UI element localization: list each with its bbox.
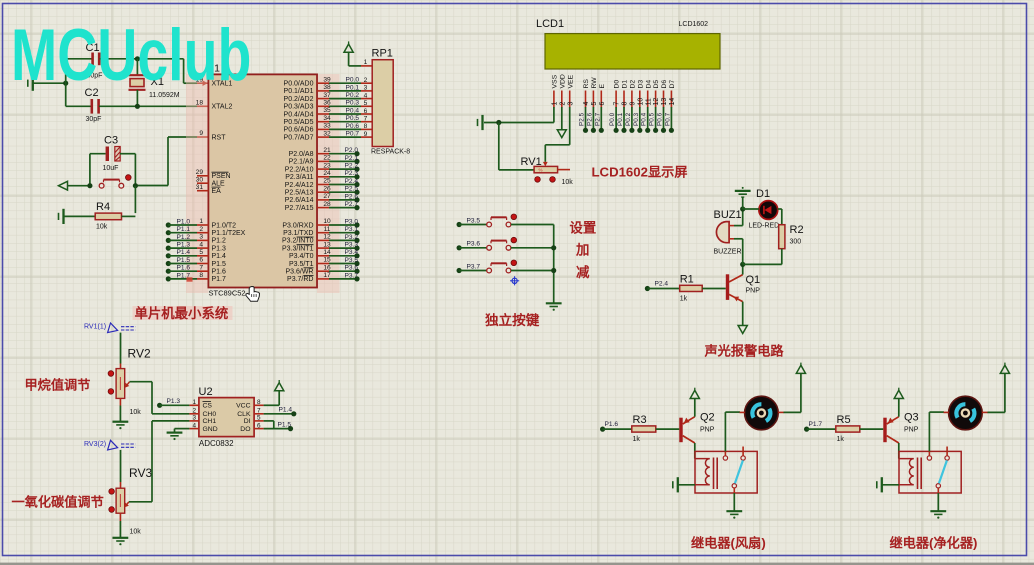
svg-text:RS: RS bbox=[583, 79, 590, 89]
wire bbox=[733, 493, 735, 511]
pin P0.5 bbox=[317, 121, 329, 123]
power terminal motor Q2 bbox=[796, 365, 805, 373]
node junction left bus bbox=[63, 81, 68, 86]
overline INT bbox=[297, 236, 314, 238]
svg-text:P1.0/T2: P1.0/T2 bbox=[212, 222, 237, 229]
wire to ground bbox=[742, 197, 744, 209]
junction bbox=[551, 245, 556, 250]
svg-text:Q3: Q3 bbox=[904, 412, 919, 424]
svg-text:甲烷值调节: 甲烷值调节 bbox=[25, 377, 91, 393]
pin motor left bbox=[740, 411, 745, 413]
svg-text:VEE: VEE bbox=[567, 74, 574, 88]
svg-text:1: 1 bbox=[199, 218, 203, 225]
svg-text:P1.7: P1.7 bbox=[809, 421, 823, 428]
svg-text:声光报警电路: 声光报警电路 bbox=[704, 343, 785, 359]
power terminal Q3 bbox=[894, 390, 903, 398]
node P2.7 bbox=[354, 205, 359, 210]
red dot RV1 minus bbox=[535, 177, 541, 183]
resistor R5 bbox=[836, 426, 860, 432]
wire P0.7 bbox=[670, 107, 672, 130]
svg-text:9: 9 bbox=[364, 131, 368, 138]
overline EA bbox=[212, 186, 221, 188]
wire bbox=[120, 333, 122, 364]
svg-text:3: 3 bbox=[567, 102, 574, 106]
pin LCD RS bbox=[585, 91, 587, 108]
node P2.4 bbox=[354, 182, 359, 187]
svg-text:R5: R5 bbox=[837, 414, 851, 426]
node P3.7 bbox=[354, 276, 359, 281]
svg-text:P2.7/A15: P2.7/A15 bbox=[285, 205, 314, 212]
pin LCD D3 bbox=[639, 91, 641, 108]
svg-text:RESPACK-8: RESPACK-8 bbox=[371, 149, 410, 156]
pin P2.3 bbox=[317, 176, 329, 178]
svg-text:3: 3 bbox=[192, 415, 196, 422]
svg-text:1k: 1k bbox=[837, 436, 845, 443]
svg-text:39: 39 bbox=[323, 76, 331, 83]
pin P3.5 bbox=[317, 263, 329, 265]
pin P2.0 bbox=[317, 153, 329, 155]
svg-text:P1.6: P1.6 bbox=[605, 421, 619, 428]
svg-text:P0.2: P0.2 bbox=[625, 112, 632, 126]
svg-text:13: 13 bbox=[661, 98, 668, 106]
node P1.3 bbox=[166, 246, 171, 251]
node P3.6 bbox=[457, 245, 462, 250]
svg-text:R1: R1 bbox=[680, 274, 694, 286]
wire bbox=[136, 59, 138, 75]
svg-text:P2.7: P2.7 bbox=[345, 201, 359, 208]
svg-text:E: E bbox=[599, 84, 606, 89]
node P0.0 bbox=[614, 128, 619, 133]
svg-text:RV2: RV2 bbox=[128, 347, 151, 361]
pin LCD D2 bbox=[631, 91, 633, 108]
svg-text:P0.5: P0.5 bbox=[649, 112, 656, 126]
wire bbox=[499, 169, 534, 171]
svg-text:P0.0/AD0: P0.0/AD0 bbox=[284, 81, 314, 88]
svg-text:C3: C3 bbox=[104, 135, 118, 147]
svg-text:11: 11 bbox=[645, 98, 652, 105]
wire bbox=[66, 105, 91, 107]
svg-text:36: 36 bbox=[323, 100, 331, 107]
svg-text:R2: R2 bbox=[790, 224, 804, 236]
wire bbox=[484, 122, 554, 124]
svg-text:D6: D6 bbox=[661, 80, 668, 89]
wire P3.3 bbox=[329, 247, 357, 249]
pin P1.5 bbox=[197, 263, 208, 265]
pin buzzer bottom bbox=[729, 238, 734, 240]
junction bbox=[496, 120, 501, 125]
pin LCD VEE bbox=[569, 91, 571, 108]
node P3.7 bbox=[457, 268, 462, 273]
svg-text:P1.0: P1.0 bbox=[177, 218, 191, 225]
power terminal Q2 bbox=[690, 390, 699, 398]
svg-text:P2.6: P2.6 bbox=[586, 112, 593, 126]
red highlight fragment bbox=[187, 277, 193, 281]
svg-text:P1.2: P1.2 bbox=[212, 238, 227, 245]
svg-text:VDD: VDD bbox=[559, 74, 566, 88]
pin P0.0 bbox=[317, 82, 329, 84]
svg-text:P3.4: P3.4 bbox=[345, 249, 359, 256]
svg-text:1k: 1k bbox=[680, 296, 688, 303]
svg-text:27: 27 bbox=[323, 193, 331, 200]
wire GND bbox=[175, 428, 190, 430]
pin relay NC Q2 bbox=[742, 447, 744, 456]
svg-text:30: 30 bbox=[196, 176, 204, 183]
wire P3.6 bbox=[329, 270, 357, 272]
node P3.5 bbox=[354, 261, 359, 266]
svg-text:11: 11 bbox=[324, 226, 331, 233]
svg-text:ALE: ALE bbox=[212, 181, 226, 188]
wire P3.5 to bus bbox=[511, 224, 554, 226]
red actuator dot P3.5 bbox=[511, 214, 517, 220]
wire bbox=[734, 225, 743, 227]
svg-text:P2.2/A10: P2.2/A10 bbox=[285, 166, 314, 173]
svg-text:2: 2 bbox=[192, 408, 196, 415]
ground relay Q3 bbox=[930, 511, 946, 519]
svg-text:6: 6 bbox=[199, 257, 203, 264]
wire VCC bbox=[264, 404, 280, 406]
wire P3.7 bbox=[329, 278, 357, 280]
svg-text:P0.1: P0.1 bbox=[617, 112, 624, 126]
svg-text:VSS: VSS bbox=[552, 74, 559, 88]
svg-text:30pF: 30pF bbox=[86, 116, 102, 123]
svg-text:P1.1: P1.1 bbox=[177, 226, 191, 233]
svg-text:DI: DI bbox=[244, 418, 251, 425]
node P1.6 bbox=[166, 269, 171, 274]
node P3.4 bbox=[354, 253, 359, 258]
svg-text:P0.4: P0.4 bbox=[346, 107, 360, 114]
svg-text:23: 23 bbox=[323, 162, 331, 169]
relay contacts Q3 bbox=[927, 456, 949, 488]
wire bbox=[89, 154, 91, 186]
svg-text:U2: U2 bbox=[199, 386, 213, 398]
pin RST bbox=[197, 136, 208, 138]
wire P3.2 bbox=[329, 239, 357, 241]
pin P3.0 bbox=[317, 224, 329, 226]
pin LCD D4 bbox=[647, 91, 649, 108]
wire P2.5 bbox=[329, 191, 357, 193]
pin LCD RW bbox=[592, 91, 594, 108]
ground coil Q3 bbox=[877, 477, 882, 492]
wire P0.4 bbox=[647, 107, 649, 130]
svg-text:PNP: PNP bbox=[746, 288, 761, 295]
wire bbox=[152, 420, 189, 422]
pin P2.4 bbox=[317, 184, 329, 186]
svg-text:P2.2: P2.2 bbox=[345, 163, 359, 170]
svg-text:RW: RW bbox=[591, 77, 598, 89]
wire bbox=[120, 450, 122, 482]
relay switch arm Q2 bbox=[735, 460, 743, 483]
svg-text:D4: D4 bbox=[645, 80, 652, 89]
svg-text:P0.3: P0.3 bbox=[633, 112, 640, 126]
svg-text:P1.3: P1.3 bbox=[177, 242, 191, 249]
svg-text:P1.4: P1.4 bbox=[177, 249, 191, 256]
wire P2.7 bbox=[329, 207, 357, 209]
wire P2.1 bbox=[329, 160, 357, 162]
RV2 wiper bbox=[125, 382, 130, 388]
svg-text:P3.5: P3.5 bbox=[345, 257, 359, 264]
svg-text:P0.5: P0.5 bbox=[346, 115, 360, 122]
pin P0.7 bbox=[317, 136, 329, 138]
wire emitter Q1 bbox=[742, 302, 744, 326]
node P3.1 bbox=[354, 230, 359, 235]
junction LED node bbox=[740, 206, 745, 211]
wire P2.2 bbox=[329, 168, 357, 170]
svg-text:8: 8 bbox=[622, 102, 629, 106]
wire P1.1 bbox=[168, 232, 197, 234]
pin motor left bbox=[944, 411, 949, 413]
ground near C1/C2 bbox=[28, 76, 33, 91]
wire P1.0 bbox=[168, 224, 197, 226]
svg-text:10: 10 bbox=[323, 218, 331, 225]
svg-text:%: % bbox=[539, 168, 543, 173]
svg-text:D1: D1 bbox=[622, 80, 629, 89]
wire P2.6 bbox=[329, 199, 357, 201]
selection highlight bands bbox=[186, 74, 340, 293]
wire bbox=[68, 185, 88, 187]
LED D1 LED-RED bbox=[759, 201, 778, 220]
wire bbox=[122, 215, 136, 217]
ground U2 bbox=[167, 433, 183, 441]
svg-text:8: 8 bbox=[364, 123, 368, 130]
svg-text:RST: RST bbox=[212, 134, 227, 141]
wire bbox=[130, 381, 152, 383]
svg-text:PNP: PNP bbox=[904, 427, 919, 434]
wire P3.7 to bus bbox=[511, 270, 554, 272]
svg-text:Q1: Q1 bbox=[746, 274, 761, 286]
terminal flag RV2 top bbox=[108, 323, 136, 333]
RV3 wiper bbox=[124, 502, 128, 508]
wire P0.6 bbox=[329, 128, 361, 130]
pin RV3 top bbox=[120, 482, 122, 488]
wire P2.0 bbox=[329, 153, 357, 155]
wire left bus bbox=[65, 59, 67, 107]
wire bbox=[882, 484, 899, 486]
svg-text:D0: D0 bbox=[614, 80, 621, 89]
svg-text:P0.2: P0.2 bbox=[346, 92, 360, 99]
wire bbox=[174, 429, 176, 433]
node P0.2 bbox=[629, 128, 634, 133]
node P2.7 bbox=[599, 128, 604, 133]
svg-text:1: 1 bbox=[192, 399, 196, 406]
pin XTAL1 bbox=[197, 82, 208, 84]
potentiometer RV2 bbox=[116, 369, 125, 399]
svg-text:减: 减 bbox=[576, 264, 590, 280]
node P3.3 bbox=[354, 246, 359, 251]
svg-text:7: 7 bbox=[199, 264, 203, 271]
svg-text:4: 4 bbox=[192, 422, 196, 429]
junction crystal bottom bbox=[135, 104, 140, 109]
svg-text:P1.4: P1.4 bbox=[212, 253, 227, 260]
wire bbox=[120, 153, 135, 155]
node P1.0 bbox=[166, 222, 171, 227]
pin LCD VDD bbox=[561, 91, 563, 108]
svg-text:P0.3/AD3: P0.3/AD3 bbox=[284, 104, 314, 111]
node P3.0 bbox=[354, 222, 359, 227]
pin P0.6 bbox=[317, 128, 329, 130]
svg-text:P2.3/A11: P2.3/A11 bbox=[285, 174, 313, 181]
red actuator dot bbox=[126, 175, 132, 181]
wire bbox=[742, 209, 744, 226]
wire bbox=[800, 373, 802, 412]
relay switch arm Q3 bbox=[939, 460, 947, 483]
wire bbox=[135, 185, 168, 187]
svg-text:35: 35 bbox=[323, 107, 331, 114]
svg-text:MCUclub: MCUclub bbox=[11, 14, 251, 96]
svg-text:P0.7/AD7: P0.7/AD7 bbox=[284, 134, 314, 141]
pin P0.4 bbox=[317, 113, 329, 115]
node P0.6 bbox=[661, 128, 666, 133]
pin P3.7 bbox=[317, 278, 329, 280]
wire bbox=[134, 186, 136, 213]
svg-text:10k: 10k bbox=[130, 529, 142, 536]
svg-text:D7: D7 bbox=[669, 80, 676, 89]
wire P0.2 bbox=[631, 107, 633, 130]
capacitor C3 bbox=[106, 147, 121, 162]
svg-text:10: 10 bbox=[637, 98, 644, 106]
svg-text:ADC0832: ADC0832 bbox=[199, 439, 234, 448]
svg-text:BUZZER: BUZZER bbox=[714, 249, 742, 256]
overline PSEN bbox=[212, 171, 229, 173]
svg-text:PSEN: PSEN bbox=[212, 173, 231, 180]
svg-text:2: 2 bbox=[559, 102, 566, 106]
node P1.4 bbox=[166, 253, 171, 258]
svg-text:9: 9 bbox=[630, 102, 637, 106]
node P2.1 bbox=[354, 159, 359, 164]
ground RV3 bbox=[113, 538, 129, 546]
svg-text:VCC: VCC bbox=[236, 403, 250, 410]
pin RV3 bottom bbox=[119, 513, 121, 521]
potentiometer RV3 bbox=[116, 488, 125, 513]
overline bbox=[304, 267, 314, 269]
pin P3.3 bbox=[317, 247, 329, 249]
svg-text:设置: 设置 bbox=[570, 221, 597, 236]
svg-text:5: 5 bbox=[364, 100, 368, 107]
pin relay common Q3 bbox=[937, 488, 939, 493]
node P3.6 bbox=[354, 269, 359, 274]
svg-text:独立按键: 独立按键 bbox=[485, 312, 540, 328]
wire P3.6 to bus bbox=[511, 247, 554, 249]
svg-text:14: 14 bbox=[669, 98, 676, 106]
svg-text:8: 8 bbox=[199, 272, 203, 279]
svg-text:P1.3: P1.3 bbox=[212, 245, 227, 252]
svg-text:7: 7 bbox=[257, 408, 261, 415]
pin LCD D0 bbox=[615, 91, 617, 108]
pin RP1-8 bbox=[361, 128, 372, 130]
pin P1.0 bbox=[197, 224, 208, 226]
pin relay common Q2 bbox=[733, 488, 735, 493]
wire P0.4 bbox=[329, 113, 361, 115]
wire P1.3 bbox=[160, 404, 190, 406]
pin RV2 bottom bbox=[119, 398, 121, 405]
pin P1.1 bbox=[197, 232, 208, 234]
svg-text:16: 16 bbox=[323, 264, 331, 271]
buzzer BUZ1 bbox=[716, 222, 729, 243]
pin RV1 right bbox=[558, 169, 570, 171]
junction bbox=[551, 268, 556, 273]
wire button bus bbox=[553, 225, 555, 303]
origin marker bbox=[510, 276, 519, 285]
pin CH1 bbox=[189, 420, 199, 422]
junction crystal top bbox=[135, 56, 140, 61]
pin P2.5 bbox=[317, 191, 329, 193]
wire P0.3 bbox=[639, 107, 641, 130]
svg-text:D3: D3 bbox=[637, 80, 644, 89]
red dot RV2 bbox=[108, 371, 114, 377]
wire VDD bbox=[561, 107, 563, 130]
wire bbox=[860, 428, 884, 430]
node P3.2 bbox=[354, 238, 359, 243]
svg-text:10uF: 10uF bbox=[103, 165, 119, 172]
svg-text:LCD1: LCD1 bbox=[536, 18, 564, 30]
svg-text:RV3(2): RV3(2) bbox=[84, 441, 106, 448]
svg-text:32: 32 bbox=[323, 130, 331, 137]
svg-text:P1.7: P1.7 bbox=[212, 276, 227, 283]
wire bbox=[743, 263, 782, 265]
svg-text:P0.7: P0.7 bbox=[664, 112, 671, 126]
svg-text:6: 6 bbox=[599, 102, 606, 106]
svg-text:P3.3/INT1: P3.3/INT1 bbox=[282, 245, 314, 252]
svg-text:RV1(1): RV1(1) bbox=[84, 324, 106, 331]
pin CS bbox=[189, 404, 199, 406]
svg-text:P3.0: P3.0 bbox=[345, 218, 359, 225]
svg-text:29: 29 bbox=[196, 169, 204, 176]
svg-text:P3.2: P3.2 bbox=[345, 234, 359, 241]
svg-text:P1.3: P1.3 bbox=[167, 398, 181, 405]
svg-text:P2.4: P2.4 bbox=[345, 178, 359, 185]
wire P3.0 bbox=[329, 224, 357, 226]
wire bbox=[119, 521, 121, 537]
potentiometer RV1 bbox=[534, 166, 558, 172]
node P3.5 bbox=[457, 222, 462, 227]
RV3 body mark bbox=[119, 494, 121, 507]
node P1.6 bbox=[600, 427, 605, 432]
resistor R3 bbox=[632, 426, 656, 432]
pin LCD E bbox=[600, 91, 602, 108]
svg-text:P0.0: P0.0 bbox=[346, 77, 360, 84]
terminal arrow down Q1 bbox=[738, 326, 747, 334]
svg-text:P3.4/T0: P3.4/T0 bbox=[289, 253, 314, 260]
wire P1.6 bbox=[168, 270, 197, 272]
wire collector Q2 bbox=[694, 443, 696, 459]
pin buzzer top bbox=[729, 225, 734, 227]
wire bbox=[100, 58, 184, 60]
pin P0.1 bbox=[317, 90, 329, 92]
svg-text:17: 17 bbox=[323, 272, 331, 279]
wire P1.4 bbox=[264, 413, 294, 415]
relay RL Q2 bbox=[695, 451, 757, 493]
svg-text:单片机最小系统: 单片机最小系统 bbox=[135, 305, 229, 321]
svg-text:4: 4 bbox=[583, 102, 590, 106]
svg-text:34: 34 bbox=[323, 115, 331, 122]
pin P0.3 bbox=[317, 105, 329, 107]
resistor R4 bbox=[95, 213, 121, 220]
svg-text:1: 1 bbox=[552, 102, 559, 106]
wire P0.1 bbox=[623, 107, 625, 130]
svg-text:P3.6/WR: P3.6/WR bbox=[285, 269, 313, 276]
ADC U2 body bbox=[199, 398, 254, 437]
wire P2.6 bbox=[592, 107, 594, 130]
svg-text:22: 22 bbox=[323, 155, 331, 162]
pin LCD VSS bbox=[553, 91, 555, 108]
pin LCD D7 bbox=[670, 91, 672, 108]
svg-text:P0.5/AD5: P0.5/AD5 bbox=[284, 119, 314, 126]
svg-text:24: 24 bbox=[323, 170, 331, 177]
node P0.1 bbox=[621, 128, 626, 133]
wire P0.3 bbox=[329, 105, 361, 107]
node P1.1 bbox=[166, 230, 171, 235]
wire P3.7 bbox=[459, 270, 487, 272]
wire P2.3 bbox=[329, 176, 357, 178]
